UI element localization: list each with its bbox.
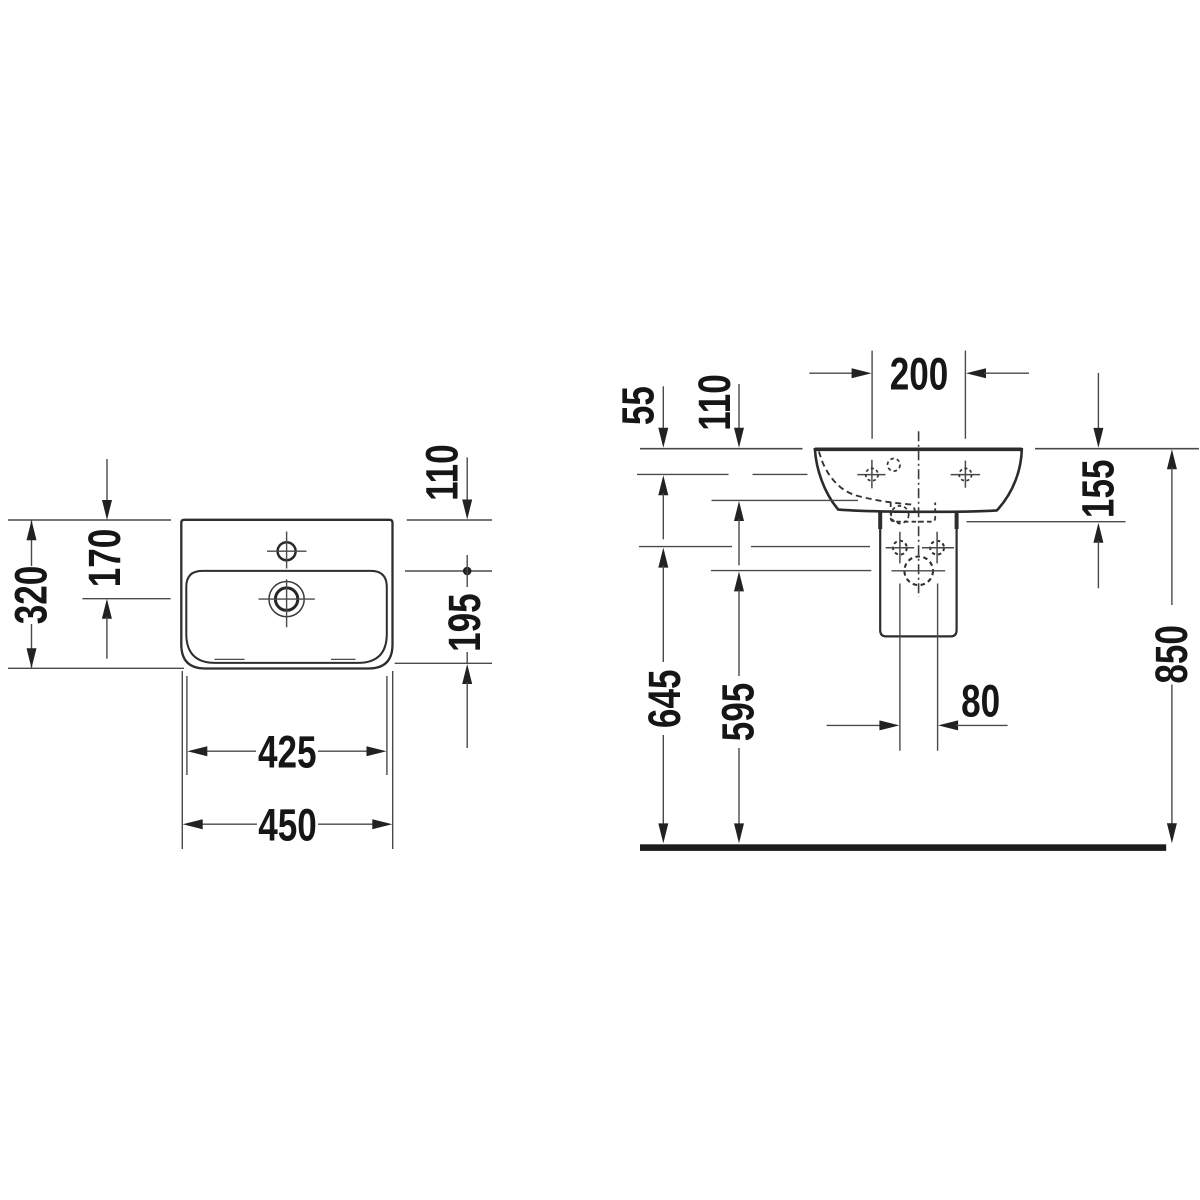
svg-text:80: 80 [961, 675, 1000, 726]
faucet cross vertical [286, 532, 288, 569]
dim 425 line left segment [205, 750, 256, 752]
svg-text:595: 595 [712, 683, 763, 742]
svg-text:425: 425 [258, 726, 317, 777]
dim 200 arrow left-pointing [966, 368, 986, 378]
dim 200 left arrow shaft [809, 372, 853, 374]
level 645 line segment b [751, 546, 870, 548]
wall level line left segment [640, 448, 803, 450]
dim 850 line lower segment [1171, 685, 1173, 826]
vertical centre line (dash-dot) [918, 431, 920, 597]
dim 450 line left segment [201, 823, 257, 825]
faucet level extension line with dot [405, 570, 492, 572]
drain outer circle [269, 582, 304, 617]
svg-text:645: 645 [639, 670, 690, 729]
dim 450 arrow right [372, 819, 392, 829]
left view top-right extension line [407, 519, 492, 521]
dim 110 right-view lower arrow shaft [738, 519, 740, 565]
pedestal top level line right [967, 521, 1126, 523]
dashed inner basin curve [819, 452, 915, 512]
washbasin top-view inner bowl [186, 571, 386, 663]
drain cross horizontal [259, 598, 315, 600]
dim 200 arrow right-pointing [852, 368, 872, 378]
washbasin top-view outer body [181, 520, 392, 669]
bolt hole dashed circle right [930, 541, 944, 555]
dim 110 right-view upper arrow shaft [738, 384, 740, 430]
dim 200 extension line left [871, 351, 873, 439]
deck fixing cross left horizontal [857, 474, 885, 476]
svg-text:850: 850 [1146, 625, 1197, 684]
dim 425 extension line left [186, 676, 188, 775]
rim lower level line [712, 499, 859, 501]
pedestal right edge thick top [955, 511, 959, 529]
dim 155 arrow up [1093, 523, 1103, 543]
svg-text:200: 200 [890, 348, 949, 399]
svg-text:55: 55 [612, 386, 663, 425]
dim 110 left-view arrow down [462, 500, 472, 520]
faucet level dot vertical [466, 555, 468, 587]
dim 195 arrow up [462, 664, 472, 684]
dim 645 line lower segment [662, 735, 664, 825]
dim 55 upper arrow shaft [662, 386, 664, 430]
dim 850 arrow up [1167, 449, 1177, 469]
faucet cross horizontal [267, 550, 307, 552]
dim 55 arrow down [658, 428, 668, 448]
dim 170 arrow down [102, 500, 112, 520]
drain cross vertical [286, 579, 288, 627]
dim 110 right-view arrow down [734, 428, 744, 448]
dim 425 extension line right [386, 676, 388, 775]
side-view top rim thick edge [815, 447, 1022, 451]
dim 450 extension line right [392, 671, 394, 849]
bolt hole dashed circle left [893, 541, 907, 555]
dim 110 left-view arrow shaft [466, 457, 468, 501]
dim 170 upper arrow shaft [106, 459, 108, 502]
semi-pedestal outline [880, 510, 956, 636]
tap level line segment a [637, 473, 729, 475]
svg-text:450: 450 [258, 799, 317, 850]
drain inner circle [275, 588, 297, 610]
dim 450 arrow left [183, 819, 203, 829]
faucet level dot terminator [463, 567, 472, 576]
dim 170 lower arrow shaft [106, 617, 108, 659]
svg-text:110: 110 [689, 374, 740, 431]
dim 850 arrow down [1167, 823, 1177, 843]
left view top extension line [8, 519, 171, 521]
dim 55 lower arrow shaft [662, 493, 664, 539]
dim 155 upper arrow shaft [1097, 373, 1099, 430]
washbasin side-view body [815, 449, 1022, 512]
svg-text:155: 155 [1072, 460, 1123, 519]
deck fixing dashed circle left [866, 468, 878, 480]
dim 320 line upper segment [31, 521, 33, 567]
dim 595 line lower segment [738, 748, 740, 825]
bowl bottom extension line [395, 662, 492, 664]
dim 200 extension line right [964, 351, 966, 439]
dim 80 right arrow shaft [956, 724, 1008, 726]
dashed overflow rectangle [891, 503, 936, 522]
pedestal left edge thick top [878, 511, 882, 529]
wall level line right segment [1035, 448, 1199, 450]
dim 595 arrow down [734, 823, 744, 843]
dim 55 arrow up [658, 475, 668, 495]
drain level extension line [82, 598, 170, 600]
bolt hole cross right vertical [936, 532, 938, 564]
dim 110 right-view arrow up [734, 501, 744, 521]
dim 450 line right segment [318, 823, 374, 825]
svg-text:195: 195 [439, 593, 490, 652]
dim 320 arrow up [27, 520, 37, 540]
bowl bottom ledge tick left [215, 658, 245, 660]
dim 595 line upper segment [738, 589, 740, 676]
bowl bottom ledge tick right [331, 658, 356, 660]
dim 155 lower arrow shaft [1097, 541, 1099, 589]
dim 645 arrow down [658, 823, 668, 843]
dim 80 arrow left-pointing [938, 720, 958, 730]
dim 645 line upper segment [662, 566, 664, 662]
dim 155 arrow down [1093, 428, 1103, 448]
dim 425 arrow right [367, 746, 387, 756]
dim 450 extension line left [181, 671, 183, 849]
dim 200 right arrow shaft [984, 372, 1029, 374]
tap level line segment b [753, 473, 808, 475]
deck fixing dashed circle right [959, 468, 971, 480]
floor line [640, 844, 1166, 851]
siphon level segment inside pedestal [892, 570, 946, 572]
dim 80 arrow right-pointing [879, 720, 899, 730]
svg-text:110: 110 [416, 444, 467, 501]
svg-text:170: 170 [79, 529, 130, 588]
dim 320 arrow down [27, 648, 37, 668]
bolt hole cross right horizontal [922, 547, 954, 549]
faucet hole circle [278, 542, 296, 560]
dim 320 line lower segment [31, 624, 33, 668]
level 595 line [711, 570, 871, 572]
deck fixing cross left vertical [871, 460, 873, 489]
left view bottom-left extension line [8, 667, 184, 669]
faucet hole dashed circle (side view) [888, 459, 901, 472]
dim 850 line upper segment [1171, 467, 1173, 605]
dim 425 line right segment [318, 750, 369, 752]
dim 645 arrow up [658, 548, 668, 568]
deck fixing cross right vertical [964, 461, 966, 488]
dim 425 arrow left [187, 746, 207, 756]
dim 80 extension line right [937, 584, 939, 751]
svg-text:320: 320 [5, 566, 56, 625]
dim 195 lower arrow shaft [466, 682, 468, 748]
bolt hole cross left vertical [899, 532, 901, 564]
deck fixing cross right horizontal [951, 474, 981, 476]
dim 80 left arrow shaft [827, 724, 882, 726]
dim 170 arrow up [102, 599, 112, 619]
bolt hole cross left horizontal [886, 547, 915, 549]
level 645 line segment a [639, 546, 732, 548]
dashed overflow circle [891, 506, 909, 524]
dim 195 segment below text [466, 652, 468, 663]
dim 595 arrow up [734, 571, 744, 591]
dim 80 extension line left [899, 584, 901, 751]
siphon dashed circle [904, 557, 933, 586]
